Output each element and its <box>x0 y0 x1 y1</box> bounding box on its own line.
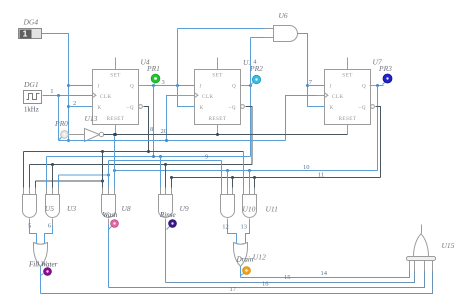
bus line B1 (clock) <box>59 140 286 142</box>
wire drops to gate U10 <box>221 161 223 188</box>
probe Drain <box>243 267 251 275</box>
node Q1/probe <box>152 84 155 87</box>
svg-text:13: 13 <box>241 224 248 231</box>
wire U8 (wash) out to line 16 <box>108 219 110 225</box>
node on DG4 net at K1 <box>67 105 70 108</box>
svg-text:U11: U11 <box>266 205 278 214</box>
svg-text:1: 1 <box>23 29 28 39</box>
DG1 clock source <box>24 91 42 104</box>
wire drops to gate U5 <box>23 152 25 188</box>
svg-text:1kHz: 1kHz <box>24 107 39 114</box>
DG4 digital constant box <box>19 29 42 39</box>
AND gate U6 <box>274 26 298 42</box>
wire U3 out to OR <box>52 219 54 226</box>
wire U9 (rinse) out to line 15 <box>165 219 167 225</box>
node on DG4 net at J1 <box>67 84 70 87</box>
wire ~Q1 down to bus B3 <box>144 107 149 152</box>
wire line 14 to buzzer <box>241 270 410 278</box>
OR gate U12 (drain) <box>234 243 248 267</box>
svg-text:U5: U5 <box>45 204 54 213</box>
svg-text:DG1: DG1 <box>23 80 39 89</box>
bus branch ~Q1 to U5 <box>36 180 103 182</box>
bus line B4 (Q1) <box>47 156 251 158</box>
svg-text:10: 10 <box>303 164 310 171</box>
probe Rinse <box>167 220 177 230</box>
flip-flop U7 <box>325 58 375 135</box>
wire ~Q2 down to bus B3 <box>246 107 253 165</box>
wire DG4 out: right then down to bus B1 <box>42 34 69 141</box>
wire line 16 to buzzer <box>109 270 425 288</box>
wire CLK3 from bus B1 <box>286 96 317 141</box>
svg-text:DG4: DG4 <box>23 18 39 27</box>
node U6 out to J3 <box>306 84 309 87</box>
buzzer U15 <box>407 225 436 271</box>
node clock net split <box>57 94 60 97</box>
svg-text:15: 15 <box>284 274 291 281</box>
svg-text:12: 12 <box>222 224 229 231</box>
node Q3 <box>376 84 379 87</box>
AND gate U5 <box>23 195 37 218</box>
wire K1 input <box>69 106 93 108</box>
probe PR2 <box>251 75 261 84</box>
bus line B3 (~Q1) <box>24 151 244 153</box>
svg-text:9: 9 <box>205 153 208 160</box>
node Q2 <box>249 84 252 87</box>
wire Q3 down to line10 <box>377 86 379 171</box>
svg-text:U8: U8 <box>122 204 131 213</box>
wire line 15 to buzzer <box>166 270 415 283</box>
wire line 17 to buzzer <box>41 270 433 294</box>
wire Q1 to J2 <box>139 85 147 87</box>
svg-text:2: 2 <box>73 100 76 107</box>
wire Q2 vertical: U6 input b down to bus B4 <box>250 38 252 157</box>
wire U6 input b from Q2 <box>251 37 265 39</box>
svg-text:8: 8 <box>150 126 153 133</box>
AND gate U8 <box>102 195 116 218</box>
wire ~Q3 down to line11 <box>376 107 381 178</box>
wire probe to inverter input <box>69 134 85 136</box>
svg-text:20: 20 <box>161 128 168 135</box>
node reset FF2 <box>216 133 219 136</box>
probe PR1 <box>151 74 160 85</box>
wire drops to gate U11 <box>243 152 245 188</box>
wire clock net down to bus B1 <box>58 96 60 141</box>
svg-text:11: 11 <box>318 171 324 178</box>
wire U10 out to OR U12 <box>227 219 229 226</box>
wire J1 input <box>69 85 93 87</box>
svg-text:U15: U15 <box>442 241 455 250</box>
svg-text:PR2: PR2 <box>249 64 263 73</box>
svg-text:PR3: PR3 <box>378 64 392 73</box>
bus line 10 (Q3) <box>115 170 378 172</box>
wire drops to gate U8 <box>102 152 104 188</box>
AND gate U3 <box>46 195 60 218</box>
svg-text:Drain: Drain <box>236 255 254 263</box>
svg-text:5: 5 <box>28 222 31 229</box>
probe Wash <box>109 220 119 230</box>
svg-text:17: 17 <box>230 286 237 293</box>
wire Q1 branch up to U6 input and down to K2 <box>178 29 195 107</box>
bus line 11 (~Q3) <box>172 177 381 179</box>
wire Q3 <box>370 85 377 87</box>
bus line B6 <box>30 164 253 166</box>
svg-text:PR1: PR1 <box>146 64 160 73</box>
AND gate U10 <box>221 195 235 218</box>
wire drain out to line 14 <box>240 267 242 278</box>
wire Q2 <box>241 85 248 87</box>
probe Fill Water <box>44 268 52 276</box>
svg-text:Wash: Wash <box>103 211 118 219</box>
wire U5 out to OR <box>29 219 31 226</box>
wire CLK2 from bus B1 <box>167 96 176 141</box>
svg-text:Rinse: Rinse <box>159 211 176 219</box>
wire U6 output to J3/K3 <box>298 34 325 107</box>
inverter U3a <box>85 129 104 142</box>
svg-text:PR0: PR0 <box>54 119 68 128</box>
probe PR3 <box>383 74 393 85</box>
wire J3 <box>308 85 325 87</box>
wire U11 out to OR U12 <box>249 219 251 226</box>
svg-text:16: 16 <box>262 280 269 287</box>
svg-text:U13: U13 <box>85 114 98 123</box>
svg-text:14: 14 <box>321 270 328 277</box>
svg-text:U6: U6 <box>279 11 288 20</box>
svg-text:U9: U9 <box>180 204 189 213</box>
bus line B5 (net 9) <box>109 160 222 162</box>
wire drops to gate U9 <box>160 157 162 188</box>
svg-text:U10: U10 <box>243 205 256 214</box>
flip-flop U13 <box>93 58 143 135</box>
wire DG1 out to CLK1 <box>43 95 93 97</box>
flip-flop U1 <box>195 58 245 135</box>
wire U6 input a <box>178 28 265 30</box>
svg-text:3: 3 <box>162 79 165 86</box>
wire 20: inverter out to FF resets <box>104 134 348 136</box>
wire fill-water out to line 17 <box>40 267 42 294</box>
AND gate U9 <box>159 195 173 218</box>
svg-text:1: 1 <box>50 88 53 95</box>
probe PR0 <box>59 131 69 141</box>
svg-text:Fill Water: Fill Water <box>28 261 58 269</box>
svg-text:U3: U3 <box>67 204 76 213</box>
wire net8: Q1 down to bus B4 <box>153 86 155 157</box>
wire drops to gate U3 <box>46 157 48 188</box>
OR gate fill-water <box>34 243 48 267</box>
bus branch net9 to U3 <box>59 174 109 176</box>
node Q1/U6 branch <box>176 84 179 87</box>
node reset FF1 <box>114 133 117 136</box>
AND gate U11 <box>243 195 257 218</box>
svg-text:U12: U12 <box>253 253 266 262</box>
